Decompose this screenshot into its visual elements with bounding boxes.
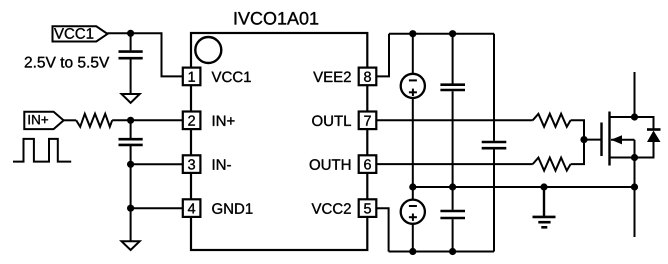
GND2 horizontal wire — [413, 186, 635, 188]
capacitor C1 lead top — [130, 33, 132, 50]
GND2 dot at mosfet source — [631, 183, 638, 190]
capacitor C4 plates — [482, 141, 507, 144]
capacitor C5 plates — [440, 210, 465, 213]
wire to pin 3 — [131, 163, 183, 165]
pin label VCC2 — [312, 203, 351, 214]
bottom rail dot at cap column — [449, 248, 456, 255]
pin number 4 — [188, 203, 195, 213]
voltage source V2 lead bottom — [412, 223, 414, 251]
bulk capacitor C4 column lead top — [493, 34, 495, 141]
capacitor C4 lead bottom — [493, 149, 495, 251]
junction dot top rail at source column — [409, 30, 416, 37]
pin label GND1 — [212, 203, 252, 214]
body diode D1 branch — [635, 117, 654, 130]
pin 1 square — [183, 68, 201, 86]
wire gate node to gate — [584, 139, 602, 141]
pin number 3 — [188, 159, 195, 169]
wire R2 to gate node — [571, 140, 584, 165]
voltage source V1 lead top — [412, 34, 414, 74]
capacitor C2 plates — [119, 138, 143, 141]
pin 7 square — [359, 112, 377, 130]
GND2 dot at source column — [409, 183, 416, 190]
square wave symbol — [13, 139, 71, 162]
V2 plus sign — [409, 216, 417, 218]
V2 minus sign — [409, 205, 417, 207]
node C junction dot — [127, 205, 134, 212]
flag text VCC1 — [54, 28, 93, 39]
D1 triangle — [647, 131, 661, 143]
V1 minus sign — [409, 79, 417, 81]
GND2 dot at ground tap — [540, 183, 547, 190]
junction dot top rail at cap column — [449, 30, 456, 37]
wire IN+ flag to resistor — [64, 119, 77, 121]
Q1 body lead with arrow — [611, 139, 635, 141]
junction dot VCC1 node — [127, 30, 134, 37]
wire to pin 4 — [131, 207, 183, 209]
flag text IN+ — [29, 115, 48, 124]
wire R1 to gate node — [571, 120, 584, 139]
pin label VCC1 — [212, 72, 251, 83]
pin label IN+ — [213, 116, 235, 126]
capacitor C2 lead bottom — [130, 146, 132, 241]
IN+ net flag — [24, 112, 63, 129]
voltage source V2 lead top — [412, 187, 414, 200]
resistor R_in — [76, 114, 112, 127]
transistor Q1 channel plate — [608, 112, 610, 166]
transistor Q1 gate plate — [600, 123, 602, 157]
pin number 7 — [364, 116, 371, 126]
wire pin 8 to top rail — [376, 34, 389, 77]
V1 plus sign — [409, 91, 417, 93]
pin number 5 — [364, 203, 371, 213]
capacitor C3 plates — [440, 83, 465, 86]
VCC1 net flag — [53, 26, 108, 41]
gate node junction dot — [580, 136, 587, 143]
IC body U1 — [191, 33, 367, 250]
voltage source V1 lead bottom — [412, 98, 414, 187]
pin 2 square — [183, 112, 201, 130]
top rail wire — [389, 33, 494, 35]
pin number 6 — [364, 159, 371, 169]
title IVCO1A01 — [235, 12, 319, 25]
capacitor C1 plates — [119, 50, 143, 53]
pin 5 square — [359, 199, 377, 217]
pin label OUTH — [310, 159, 351, 170]
capacitor C1 lead bottom — [130, 59, 132, 94]
resistor R1 (OUTL) — [533, 114, 571, 127]
ground (open triangle) bottom left — [122, 241, 140, 250]
source junction dot — [631, 154, 638, 161]
OUTL wire pin 7 to resistor — [376, 119, 532, 121]
voltage source V1 circle — [401, 74, 425, 98]
node B junction dot — [127, 161, 134, 168]
pin label VEE2 — [313, 72, 351, 82]
wire VCC1 flag to corner — [107, 33, 183, 76]
capacitor C5 lead top — [452, 187, 454, 210]
label 2.5V to 5.5V — [25, 57, 109, 68]
node A junction dot — [127, 117, 134, 124]
D1 anode lead — [635, 142, 654, 158]
pin-1 indicator circle — [195, 37, 221, 63]
Q1 body to source link — [634, 140, 636, 158]
pin number 2 — [188, 115, 195, 125]
Q1 source tap — [610, 157, 635, 159]
voltage source V2 circle — [401, 200, 425, 224]
pin 4 square — [183, 199, 201, 217]
bottom rail dot at source column — [409, 248, 416, 255]
GND2 dot at cap column — [449, 183, 456, 190]
capacitor C3 lead top — [452, 34, 454, 84]
ground (open triangle) under C1 — [122, 94, 140, 103]
wire pin 5 to bottom rail — [376, 208, 388, 251]
pin 6 square — [359, 155, 377, 173]
capacitor C3 lead bottom — [452, 91, 454, 187]
pin number 1 — [189, 72, 195, 82]
capacitor C2 lead top — [130, 120, 132, 138]
drain wire up — [634, 72, 636, 117]
pin label IN- — [213, 159, 231, 169]
pin number 8 — [364, 72, 371, 82]
D1 cathode bar — [647, 128, 661, 131]
ground symbol bars — [533, 216, 556, 219]
pin label OUTL — [312, 115, 351, 126]
pin 3 square — [183, 155, 201, 173]
resistor R2 (OUTH) — [533, 158, 571, 171]
source wire down — [634, 158, 636, 238]
pin 8 square — [359, 68, 377, 86]
Q1 drain tap — [610, 116, 635, 118]
capacitor C5 lead bottom — [452, 219, 454, 251]
drain junction dot — [631, 113, 638, 120]
wire resistor to pin 2 — [112, 119, 183, 121]
ground symbol stub — [543, 187, 545, 217]
bottom rail wire — [389, 251, 494, 253]
OUTH wire pin 6 to resistor — [376, 163, 532, 165]
